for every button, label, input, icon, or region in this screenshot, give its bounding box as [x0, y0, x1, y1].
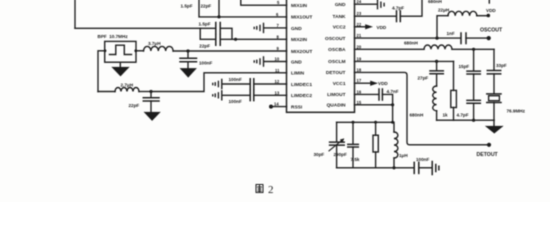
svg-text:22pF: 22pF — [199, 44, 210, 49]
capacitor C 4.7nF (pin 16) — [355, 89, 399, 105]
wire pin 5 from top — [241, 0, 287, 5]
power VDD terminal — [486, 0, 496, 17]
svg-text:100nF: 100nF — [229, 99, 242, 104]
svg-text:680nH: 680nH — [404, 41, 418, 46]
wire input vertical from top-left — [74, 0, 76, 28]
svg-text:MIX1IN: MIX1IN — [291, 3, 308, 9]
wire pin 19 — [355, 60, 454, 62]
node junction to pin 8 — [234, 38, 237, 41]
svg-text:22: 22 — [357, 22, 362, 27]
svg-text:33pF: 33pF — [496, 63, 507, 68]
svg-text:15: 15 — [357, 100, 362, 105]
svg-text:1nF: 1nF — [447, 31, 455, 36]
capacitor C 100nF (pin 13) — [229, 90, 287, 104]
inductor L 1uH (tank) — [394, 122, 408, 168]
ground (sideways right) — [432, 162, 439, 175]
capacitor C 1nF — [447, 31, 488, 44]
node junction — [391, 103, 394, 106]
capacitor C 22pF to ground — [129, 92, 160, 113]
node junctions on rail — [352, 121, 355, 124]
node junction on pin-6 wire — [217, 15, 220, 18]
value label 1.5pF — [199, 21, 211, 26]
svg-text:OSCBA: OSCBA — [328, 47, 346, 53]
ground under BPF — [112, 62, 128, 76]
caption 图 2 — [256, 184, 274, 196]
svg-text:22pF: 22pF — [129, 103, 140, 108]
svg-text:GND: GND — [335, 2, 346, 8]
node junction — [472, 119, 475, 122]
svg-text:OSCOUT: OSCOUT — [480, 28, 503, 34]
ground under 100nF — [181, 69, 197, 78]
IC pin names left — [291, 3, 312, 110]
svg-text:20: 20 — [357, 44, 362, 49]
svg-text:LIMOUT: LIMOUT — [327, 92, 345, 98]
svg-text:16: 16 — [357, 89, 362, 94]
svg-text:23: 23 — [357, 11, 362, 16]
wire BPF left pin down — [98, 51, 105, 92]
wire input horizontal to cap pair — [75, 27, 200, 29]
svg-text:2: 2 — [268, 184, 274, 196]
wire pin 18 to DETOUT — [355, 72, 488, 144]
node junction — [392, 166, 395, 169]
inductor L 2.7uH — [98, 83, 151, 92]
svg-text:GND: GND — [291, 59, 302, 65]
svg-text:18: 18 — [357, 67, 362, 72]
capacitor C 22pF (bottom path of parallel pair) — [200, 28, 236, 45]
node junction — [186, 49, 189, 52]
capacitor C 4.7pF (pin 23) — [355, 0, 423, 22]
svg-text:LIMDEC2: LIMDEC2 — [291, 93, 312, 99]
wire pin 21 OSCOUT — [355, 37, 461, 39]
ground at pin 12 (sideways) — [213, 80, 250, 89]
BPF block 10.7MHz — [98, 34, 137, 62]
ground at pin 10 (sideways) — [254, 57, 286, 66]
ground at pin 13 (sideways) — [213, 91, 250, 100]
svg-text:MIX1OUT: MIX1OUT — [291, 15, 312, 21]
svg-text:VCC2: VCC2 — [333, 25, 346, 31]
IC pin names right — [325, 2, 346, 109]
svg-text:11: 11 — [275, 68, 280, 73]
node junction — [435, 60, 438, 63]
node BPF right pin — [134, 49, 137, 52]
capacitor C 27pF (branch) — [418, 61, 444, 86]
node OSCOUT terminal — [480, 28, 503, 41]
svg-text:1.5pF: 1.5pF — [199, 21, 211, 26]
capacitor C 100nF (pin 12) — [229, 77, 287, 89]
power VDD at pin 17 — [355, 81, 389, 86]
IC pin numbers right — [357, 0, 362, 105]
node RSSI terminal pin 14 — [269, 105, 287, 109]
inductor L 3.7uH — [136, 41, 188, 51]
node junction — [472, 48, 475, 51]
svg-text:22μH: 22μH — [438, 7, 450, 12]
svg-text:30pF: 30pF — [314, 152, 325, 157]
svg-text:19: 19 — [357, 56, 362, 61]
label 680nH (cut at top) — [428, 0, 442, 4]
ground under osc rail — [486, 120, 503, 133]
svg-text:2.7μH: 2.7μH — [121, 83, 134, 88]
wire to pin 6 — [219, 16, 287, 18]
svg-text:MIX2OUT: MIX2OUT — [291, 49, 312, 55]
svg-text:21: 21 — [357, 33, 362, 38]
wire to pin 8 — [236, 38, 287, 40]
IC pin numbers left — [274, 0, 280, 106]
wire to pin 11 step — [151, 73, 287, 92]
svg-text:4.7pF: 4.7pF — [392, 5, 404, 10]
capacitor C 100nF to ground — [180, 51, 212, 68]
svg-text:4.7nF: 4.7nF — [387, 89, 399, 94]
svg-text:10: 10 — [275, 57, 280, 62]
svg-text:OSCOUT: OSCOUT — [325, 36, 346, 42]
inductor L 680nH (vertical) — [410, 86, 437, 120]
resistor R 7.5k — [351, 122, 379, 168]
svg-text:1k: 1k — [443, 112, 449, 117]
svg-text:3.7μH: 3.7μH — [148, 41, 161, 46]
svg-text:VCC1: VCC1 — [333, 81, 346, 87]
svg-text:RSSI: RSSI — [291, 104, 303, 110]
node DETOUT terminal — [477, 143, 499, 159]
svg-text:VDD: VDD — [486, 8, 496, 13]
svg-text:22pF: 22pF — [201, 4, 212, 9]
svg-text:LIMDEC1: LIMDEC1 — [291, 82, 312, 88]
wire pin 15 QUADIN — [355, 104, 393, 106]
inductor L 22uH to VDD — [437, 7, 487, 38]
svg-text:1μH: 1μH — [399, 153, 408, 158]
node junction — [149, 90, 152, 93]
ground at pin 7 (sideways) — [254, 23, 286, 32]
svg-text:290pF: 290pF — [334, 152, 347, 157]
wire down to tank rail — [392, 105, 394, 123]
node junction — [435, 37, 438, 40]
svg-text:OSCLM: OSCLM — [328, 59, 345, 65]
svg-text:DETOUT: DETOUT — [477, 152, 499, 158]
wire tank bottom rail — [337, 167, 414, 169]
power VDD at pin 22 — [355, 25, 387, 30]
capacitor C variable 30pF (trimmer) — [314, 122, 347, 168]
svg-text:12: 12 — [275, 79, 280, 84]
wire to pin 9 — [188, 50, 287, 52]
svg-text:13: 13 — [275, 90, 280, 95]
svg-text:680nH: 680nH — [410, 112, 424, 117]
svg-text:4.7pF: 4.7pF — [457, 112, 469, 117]
svg-text:TANK: TANK — [333, 14, 347, 20]
svg-text:BPF 10.7MHz: BPF 10.7MHz — [98, 34, 129, 39]
resistor R 1k — [443, 61, 457, 120]
crystal filter FL (cut at top) with 22pF label — [199, 0, 219, 17]
svg-text:GND: GND — [291, 26, 302, 32]
op-amp U1 IC body (24-pin, top cut off) — [287, 0, 355, 112]
svg-text:DETOUT: DETOUT — [326, 70, 346, 76]
capacitor C 100nF (rail) — [414, 157, 431, 173]
svg-text:680nH: 680nH — [428, 0, 442, 4]
ground under 22pF — [145, 112, 160, 120]
svg-text:76.9MHz: 76.9MHz — [507, 109, 526, 114]
svg-text:QUADIN: QUADIN — [327, 103, 346, 109]
ground at pin 24 (sideways right) — [355, 0, 385, 9]
node BPF left pin — [104, 49, 107, 52]
svg-text:100nF: 100nF — [416, 157, 429, 162]
capacitor C 4.7pF — [457, 100, 481, 120]
svg-text:100nF: 100nF — [199, 61, 212, 66]
value label 1.5pF (top) — [181, 4, 193, 9]
capacitor C 15pF — [459, 49, 481, 100]
inductor L 680nH (pin 20) — [355, 41, 495, 50]
svg-text:VDD: VDD — [378, 81, 388, 86]
svg-text:MIX2IN: MIX2IN — [291, 37, 308, 43]
svg-text:100nF: 100nF — [229, 77, 242, 82]
svg-text:1.5pF: 1.5pF — [181, 4, 193, 9]
crystal Y 76.9MHz — [487, 94, 526, 120]
value label 22pF — [199, 44, 210, 49]
svg-text:17: 17 — [357, 78, 362, 83]
capacitor C 33pF — [487, 49, 507, 93]
svg-text:27pF: 27pF — [418, 76, 429, 81]
capacitor C (tank fixed) — [348, 122, 359, 168]
svg-text:VDD: VDD — [377, 25, 387, 30]
capacitor C 1.5pF (top path of parallel pair) — [200, 23, 232, 40]
svg-text:14: 14 — [274, 102, 279, 107]
svg-text:7.5k: 7.5k — [351, 157, 360, 162]
svg-text:24: 24 — [357, 0, 362, 4]
wire osc bottom rail — [437, 119, 494, 121]
svg-text:15pF: 15pF — [459, 64, 470, 69]
wire tank top rail — [337, 121, 393, 123]
svg-text:LIMIN: LIMIN — [291, 71, 305, 77]
